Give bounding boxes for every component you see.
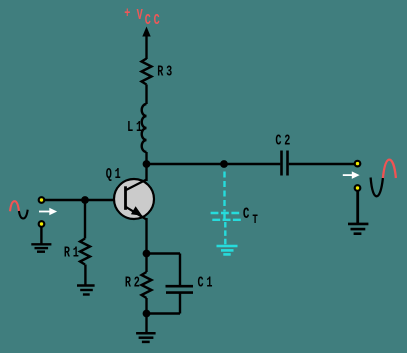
wire R3 to L1 bbox=[145, 85, 147, 105]
node tank junction bbox=[220, 160, 228, 168]
terminal input upper bbox=[39, 197, 45, 203]
svg-text:C1: C1 bbox=[198, 275, 216, 291]
svg-text:R3: R3 bbox=[157, 64, 175, 80]
capacitor C2 plates bbox=[282, 151, 288, 176]
wire Q1 emitter down bbox=[145, 218, 147, 254]
terminal output upper bbox=[355, 161, 361, 167]
wire L1 to collector node bbox=[145, 152, 147, 164]
capacitor CT plates bbox=[211, 213, 242, 220]
wire C2 to output terminal bbox=[289, 163, 355, 166]
svg-text:T: T bbox=[252, 214, 258, 228]
ground output bbox=[348, 224, 368, 234]
svg-text:R1: R1 bbox=[64, 245, 82, 261]
ground R2 bbox=[136, 333, 156, 342]
svg-text:+: + bbox=[124, 6, 130, 22]
transistor Q1 bbox=[114, 179, 154, 220]
ground CT (cyan) bbox=[217, 246, 238, 254]
svg-text:V: V bbox=[137, 8, 143, 24]
capacitor CT dashed lead lower bbox=[224, 222, 226, 245]
wire R1 to ground bbox=[84, 265, 86, 286]
wire C1 to emitter ground node bbox=[147, 294, 181, 314]
svg-text:C2: C2 bbox=[275, 133, 293, 149]
label + VCC supply bbox=[124, 6, 162, 29]
inductor L1 bbox=[142, 104, 147, 152]
wire collector node to C2 bbox=[147, 163, 281, 166]
wire output terminal to ground bbox=[356, 190, 359, 223]
arrow output (white) bbox=[343, 171, 360, 179]
resistor R2 bbox=[142, 254, 152, 315]
svg-text:CC: CC bbox=[145, 13, 163, 29]
Vcc arrow bbox=[142, 27, 150, 60]
terminal output lower bbox=[355, 185, 361, 191]
wire base node to R1 bbox=[84, 200, 86, 239]
wire node to ground R2 bbox=[145, 314, 147, 334]
label CT bbox=[243, 207, 258, 228]
terminal input lower bbox=[39, 221, 45, 227]
ground input bbox=[31, 244, 51, 251]
node ground junction bbox=[143, 310, 151, 318]
resistor R1 bbox=[80, 239, 90, 265]
svg-text:Q1: Q1 bbox=[106, 167, 124, 183]
resistor R3 bbox=[142, 59, 152, 85]
wire emitter node to C1 bbox=[147, 254, 181, 286]
capacitor C1 bbox=[166, 286, 194, 292]
wire input terminal to base bbox=[44, 199, 125, 202]
svg-text:L1: L1 bbox=[127, 119, 145, 135]
node collector junction bbox=[143, 160, 151, 168]
svg-text:C: C bbox=[243, 207, 250, 224]
wire collector node to Q1 bbox=[145, 164, 147, 181]
capacitor CT dashed lead upper bbox=[223, 172, 225, 212]
wire input terminal to ground bbox=[40, 226, 42, 244]
waveform input sine bbox=[10, 201, 28, 218]
waveform output sine bbox=[371, 160, 396, 197]
node emitter junction bbox=[143, 250, 151, 258]
node base junction bbox=[81, 196, 89, 204]
svg-text:R2: R2 bbox=[125, 275, 143, 291]
arrow input (white) bbox=[39, 208, 57, 215]
ground R1 bbox=[77, 286, 95, 295]
